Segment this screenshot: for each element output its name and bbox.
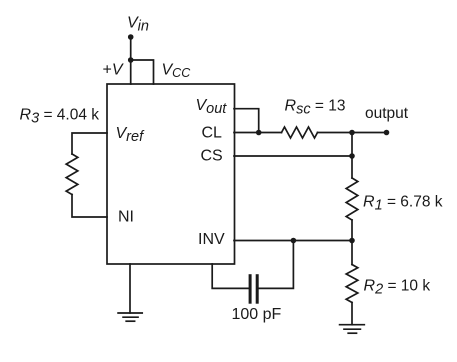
node output terminal dot	[384, 130, 390, 136]
wire R2 bottom to ground	[351, 303, 353, 325]
resistor Rsc	[282, 127, 318, 138]
wire +V pin	[130, 60, 132, 84]
wire CS pin	[234, 155, 352, 157]
wire Vin terminal to +V junction	[130, 37, 132, 60]
wire node to R1 top	[351, 133, 353, 179]
op-amp regulator IC U1 body	[107, 84, 235, 264]
node CS junction dot	[349, 153, 355, 159]
wire Rsc to output terminal	[318, 132, 387, 134]
svg-text:CS: CS	[201, 148, 223, 165]
wire Vout pin	[234, 109, 259, 133]
node Rsc/R1 junction dot	[349, 130, 355, 136]
resistor R1	[346, 178, 358, 220]
svg-text:CL: CL	[202, 125, 223, 142]
node capacitor junction dot	[291, 238, 297, 244]
wire CL pin to Rsc	[234, 132, 282, 134]
wire R1 bottom to INV node	[351, 220, 353, 241]
wire cap left plate to IC bottom pin	[212, 264, 249, 288]
wire VCC pin	[131, 60, 154, 84]
ground (right, below R2)	[340, 325, 365, 334]
wire Vref pin	[72, 133, 107, 154]
resistor R2	[346, 265, 358, 303]
node INV/R1/R2 junction dot	[349, 238, 355, 244]
node +V/VCC junction dot	[128, 57, 134, 63]
resistor R3	[66, 154, 78, 195]
svg-text:100 pF: 100 pF	[232, 306, 282, 323]
svg-text:output: output	[365, 105, 409, 122]
wire cap branch from INV line down	[259, 241, 294, 289]
wire INV node to R2 top	[351, 241, 353, 265]
wire IC ground pin	[129, 264, 131, 313]
svg-text:NI: NI	[118, 209, 134, 226]
svg-text:+V: +V	[103, 62, 124, 79]
capacitor C1 100 pF	[250, 276, 257, 303]
svg-text:INV: INV	[198, 231, 225, 248]
wire R3 bottom to NI pin	[72, 195, 107, 218]
ground (left, below IC)	[118, 313, 142, 321]
node Vout/CL junction dot	[256, 130, 262, 136]
wire INV pin	[234, 240, 352, 242]
node Vin terminal dot	[128, 34, 134, 40]
